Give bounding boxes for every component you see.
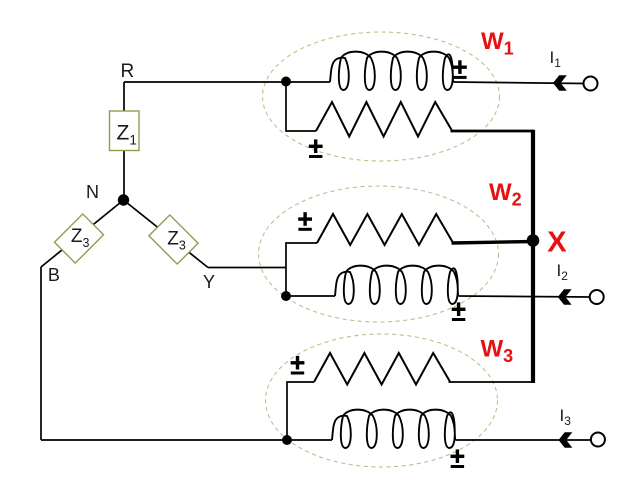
W2 pressure coil (resistor) [317, 214, 453, 245]
I2 arrowhead [558, 289, 572, 304]
svg-text:N: N [86, 182, 99, 202]
main bus vertical thick [531, 130, 535, 383]
svg-text:Y: Y [203, 272, 215, 292]
I3 terminal circle [591, 433, 605, 447]
W1 pressure branch vertical [286, 82, 316, 131]
W2 polarity mark right [452, 302, 466, 321]
W2 resistor lead to node X thick [452, 242, 534, 244]
I3 arrowhead [559, 432, 573, 447]
W3 resistor lead to bus bottom [449, 381, 535, 383]
W3 pressure branch vertical [287, 382, 314, 440]
W3 current coil (inductor) [332, 410, 456, 448]
wire node N to B corner [41, 200, 124, 267]
W3 polarity mark left [291, 356, 305, 375]
W3 pressure coil (resistor) [314, 353, 450, 385]
W3 current coil lead [287, 439, 332, 441]
impedance Z1 box [110, 111, 140, 151]
W1 resistor lead to bus [451, 130, 534, 133]
wire R down to Z1 [123, 82, 125, 111]
wattmeter W1 boundary ellipse [263, 32, 500, 161]
svg-text:X: X [547, 227, 567, 259]
wattmeter W2 boundary ellipse [259, 186, 499, 322]
svg-text:B: B [48, 265, 60, 285]
junction node B-W3 dot [282, 435, 292, 445]
impedance Z3 left diamond [54, 214, 103, 263]
node N dot [118, 194, 129, 205]
W3 polarity mark right [451, 449, 465, 468]
wire R phase horizontal [124, 81, 286, 83]
W2 current coil lead [286, 295, 335, 297]
junction node R-W1 dot [281, 77, 291, 87]
wattmeter W3 boundary ellipse [266, 334, 498, 467]
W1 polarity mark right [453, 60, 467, 79]
W2 polarity mark left [298, 212, 312, 231]
wire B bottom horizontal [41, 439, 287, 441]
W1 wire coil to I1 terminal [454, 82, 584, 84]
wire node N to Y corner [124, 200, 209, 268]
W3 wire coil to I3 terminal [456, 439, 591, 441]
junction node Y-W2 dot [281, 291, 291, 301]
W1 current coil lead from junction [286, 81, 330, 83]
impedance Z3 right diamond [149, 215, 198, 264]
W2 pressure branch [286, 243, 317, 268]
W1 pressure coil (resistor) [316, 102, 452, 137]
wire Y horizontal [208, 267, 286, 269]
W2 vertical to coil junction [285, 268, 287, 297]
wire B vertical [40, 267, 42, 440]
W1 polarity mark left [309, 139, 323, 158]
I1 arrowhead [553, 75, 567, 90]
W2 wire coil to I2 terminal [459, 296, 590, 297]
W2 current coil (inductor) [335, 266, 459, 304]
I1 terminal circle [584, 77, 598, 91]
node X dot [527, 234, 540, 247]
I2 terminal circle [590, 290, 604, 304]
W1 current coil (inductor) [330, 52, 454, 90]
svg-text:R: R [121, 61, 135, 82]
wire Z1 to node N [123, 151, 125, 201]
